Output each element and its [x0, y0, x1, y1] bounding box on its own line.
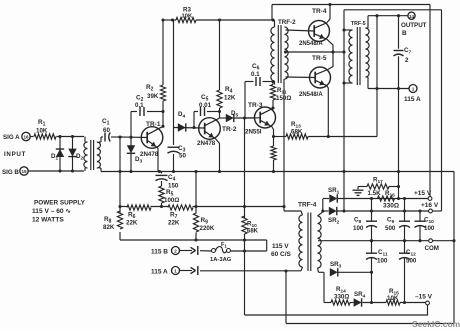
svg-text:100Ω: 100Ω: [164, 197, 179, 204]
svg-text:2: 2: [405, 57, 409, 64]
svg-text:B: B: [402, 30, 407, 37]
svg-text:12 WATTS: 12 WATTS: [32, 217, 64, 224]
svg-text:+15 V: +15 V: [414, 190, 432, 197]
svg-text:330Ω: 330Ω: [383, 203, 399, 210]
svg-text:220K: 220K: [200, 225, 215, 232]
svg-text:82K: 82K: [103, 224, 115, 231]
svg-text:115 B: 115 B: [151, 249, 168, 256]
svg-text:22K: 22K: [126, 220, 138, 227]
svg-text:10K: 10K: [182, 13, 193, 19]
svg-text:TR-2: TR-2: [222, 126, 237, 133]
svg-text:115 A: 115 A: [151, 269, 168, 276]
svg-text:1A-3AG: 1A-3AG: [210, 257, 232, 263]
svg-text:2N548/A: 2N548/A: [299, 41, 323, 47]
svg-text:68K: 68K: [291, 129, 303, 136]
svg-text:10K: 10K: [36, 128, 48, 135]
svg-text:15: 15: [21, 169, 27, 174]
svg-text:SeekIC.com: SeekIC.com: [412, 319, 460, 329]
svg-text:150Ω: 150Ω: [276, 95, 291, 102]
svg-text:F1: F1: [221, 242, 227, 249]
svg-text:2N478: 2N478: [140, 151, 159, 158]
svg-text:+16 V: +16 V: [421, 202, 439, 209]
svg-text:115 V: 115 V: [272, 243, 289, 250]
svg-text:1: 1: [412, 87, 415, 92]
svg-text:TR-3: TR-3: [248, 102, 263, 109]
svg-text:2N478: 2N478: [197, 140, 216, 147]
svg-text:OUTPUT: OUTPUT: [401, 22, 427, 29]
svg-text:2: 2: [174, 249, 177, 254]
svg-text:68K: 68K: [247, 229, 259, 235]
svg-text:1: 1: [174, 269, 177, 274]
svg-text:SIG A: SIG A: [3, 134, 20, 141]
svg-text:115 V – 60 ∿: 115 V – 60 ∿: [32, 208, 71, 215]
svg-text:10K: 10K: [387, 295, 399, 302]
svg-text:100: 100: [424, 225, 435, 232]
svg-text:0.1: 0.1: [135, 102, 144, 109]
svg-text:TR-1: TR-1: [146, 121, 161, 128]
svg-text:COM: COM: [425, 245, 439, 252]
svg-text:12K: 12K: [224, 95, 236, 102]
svg-text:INPUT: INPUT: [4, 151, 26, 158]
svg-text:2N55I: 2N55I: [245, 129, 262, 136]
svg-text:14: 14: [409, 14, 415, 19]
svg-text:1.5K: 1.5K: [368, 190, 382, 197]
svg-text:0.1: 0.1: [251, 71, 260, 78]
svg-text:500: 500: [406, 258, 417, 265]
svg-text:R3: R3: [183, 6, 191, 13]
svg-text:0.01: 0.01: [199, 102, 212, 109]
svg-text:SIG B: SIG B: [2, 169, 19, 176]
svg-text:60 C/S: 60 C/S: [271, 251, 292, 258]
svg-text:330Ω: 330Ω: [334, 294, 349, 301]
svg-text:16: 16: [23, 135, 29, 140]
svg-text:39K: 39K: [147, 93, 159, 100]
svg-text:TRF-5: TRF-5: [351, 21, 366, 27]
svg-text:TRF-2: TRF-2: [278, 19, 296, 26]
svg-text:50: 50: [179, 153, 186, 160]
svg-text:–15 V: –15 V: [415, 294, 433, 301]
svg-text:22K: 22K: [168, 220, 180, 227]
svg-text:60: 60: [103, 127, 110, 134]
svg-text:2N548/A: 2N548/A: [299, 92, 323, 98]
svg-text:115 A: 115 A: [404, 96, 421, 103]
svg-text:TRF-4: TRF-4: [298, 202, 317, 209]
svg-text:TR-5: TR-5: [312, 55, 327, 62]
svg-text:100: 100: [377, 258, 388, 265]
svg-text:100: 100: [353, 225, 364, 232]
svg-text:POWER SUPPLY: POWER SUPPLY: [34, 200, 86, 207]
svg-text:TR-4: TR-4: [312, 8, 327, 15]
svg-text:500: 500: [385, 225, 396, 232]
